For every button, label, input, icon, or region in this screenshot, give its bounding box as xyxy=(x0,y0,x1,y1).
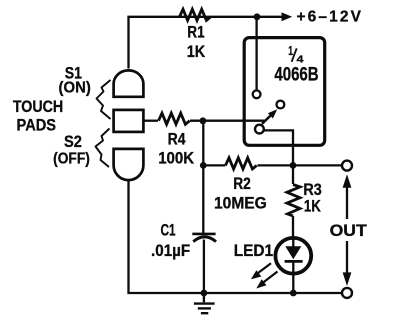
brace squiggle for S2 xyxy=(96,129,110,168)
node: junction dot at V+ branch xyxy=(254,13,261,20)
wire: input from R4 into switch xyxy=(190,120,263,123)
svg-text:PADS: PADS xyxy=(17,117,57,135)
resistor R4 xyxy=(159,113,190,124)
terminal: OUT bottom circle xyxy=(342,288,352,298)
svg-text:R2: R2 xyxy=(233,175,251,193)
svg-text:C1: C1 xyxy=(160,222,175,240)
svg-text:R4: R4 xyxy=(168,131,187,149)
IC U1: 1/4 4066B quad bilateral switch xyxy=(244,38,325,146)
pin: control terminal circle xyxy=(253,90,261,98)
arrowhead of supply arrow xyxy=(282,12,293,21)
svg-text:4066B: 4066B xyxy=(274,65,318,86)
svg-text:100K: 100K xyxy=(158,149,194,167)
svg-text:(OFF): (OFF) xyxy=(53,150,90,167)
LED1 emission arrow 1 xyxy=(257,263,271,274)
wire: output node down to R3 xyxy=(292,165,294,184)
svg-text:.01µF: .01µF xyxy=(151,242,190,260)
brace squiggle for S1 xyxy=(97,80,111,119)
capacitor C1 top plate xyxy=(192,233,215,236)
resistor R1 xyxy=(180,9,211,20)
node: junction dot output node xyxy=(290,162,297,169)
wire: top rail from S1 pad up and right to V+ node xyxy=(129,17,258,69)
pin: switch pole terminal circle xyxy=(255,125,264,134)
switch actuator arrow xyxy=(262,116,271,124)
node: junction dot R2 branch xyxy=(200,162,207,169)
capacitor C1 curved bottom plate xyxy=(193,237,216,242)
resistor R3 xyxy=(287,185,300,217)
node: junction dot R4/branch xyxy=(200,117,207,124)
svg-text:1K: 1K xyxy=(304,198,321,216)
svg-text:R3: R3 xyxy=(303,181,321,199)
wire: pad to R4 xyxy=(144,120,159,122)
pin: switch throw terminal circle xyxy=(277,101,285,109)
wire: arrow shaft to supply label xyxy=(257,16,283,18)
svg-text:OUT: OUT xyxy=(330,222,367,240)
wire: LED1 to bottom rail xyxy=(292,274,294,293)
wire: C1 to bottom rail xyxy=(203,240,205,294)
LED1 diode triangle xyxy=(285,246,301,259)
wire: node to R2 xyxy=(203,164,225,166)
svg-text:(ON): (ON) xyxy=(59,80,91,97)
svg-text:TOUCH: TOUCH xyxy=(13,98,63,116)
LED1 cathode bar xyxy=(285,260,303,263)
LED1 emission arrow 2 xyxy=(263,272,278,284)
LED1 cathode lead xyxy=(292,261,294,273)
node: junction dot ground xyxy=(201,290,208,297)
svg-text:S2: S2 xyxy=(64,133,82,151)
LED1 anode lead xyxy=(292,238,294,247)
ground xyxy=(194,293,215,313)
wire: switch pole to output column xyxy=(264,130,293,165)
wire: V+ node down to switch control pin xyxy=(255,17,257,90)
wire: R2 to output node xyxy=(257,164,293,166)
OUT bracket arrow down xyxy=(346,241,348,273)
wire: R3 to LED1 anode xyxy=(292,216,294,238)
touch pad S1 (top, domed) xyxy=(114,70,144,96)
OUT bracket arrow up xyxy=(346,187,348,219)
wire: bottom rail from S2 pad to OUT bottom terminal xyxy=(129,180,343,293)
LED LED1 body circle xyxy=(275,238,311,274)
svg-text:LED1: LED1 xyxy=(234,242,273,260)
label 1/4 xyxy=(288,44,303,65)
node: junction dot LED/bottom rail xyxy=(290,290,297,297)
touch pad S2 (bottom, domed) xyxy=(114,149,144,180)
terminal: OUT top circle xyxy=(342,161,352,171)
wire: vertical link from R4 node down to C1 xyxy=(202,121,204,233)
touch pad common (middle, square) xyxy=(114,110,144,132)
resistor R2 xyxy=(226,158,257,169)
svg-text:R1: R1 xyxy=(187,24,204,42)
svg-text:1: 1 xyxy=(288,44,293,58)
svg-text:10MEG: 10MEG xyxy=(214,194,267,212)
svg-text:1K: 1K xyxy=(187,43,206,61)
wire: output node to OUT top terminal xyxy=(293,164,342,166)
